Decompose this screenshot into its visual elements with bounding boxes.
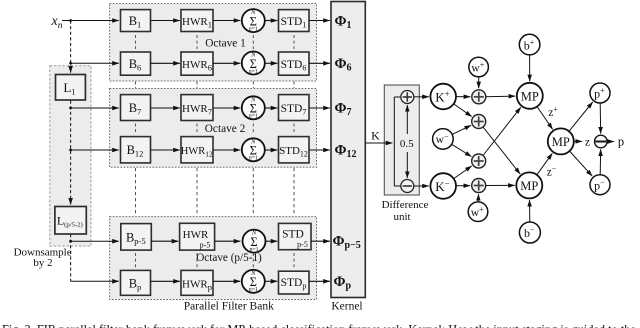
wire diffminus to K- [414,185,429,187]
wire Bp5 to HWRp5 [151,240,178,242]
svg-text:n=1: n=1 [249,287,258,293]
svg-text:n=1: n=1 [249,26,258,32]
inter-row dashes octave1 [136,35,295,49]
wire branch to B6 [71,62,119,64]
summation S6 [242,52,265,75]
node b- [519,222,540,243]
wire MPtop to MPright z+ [537,107,553,130]
inter-octave dashes 1-2 [136,82,295,89]
wire HWRp to sump [213,280,240,282]
svg-text:HWR: HWR [183,229,209,241]
svg-text:Octave 2: Octave 2 [205,123,246,135]
wire STD12 to kernel [309,149,330,151]
wire STD7 to kernel [309,107,330,109]
wire K+ to adder1 [456,96,470,98]
node w+ bottom [468,202,488,222]
wire p+ down to output subtractor [599,103,602,134]
junction B12 branch [69,149,72,152]
node phi1 [335,13,352,31]
wire HWRp5 to sump5 [215,240,241,242]
svg-text:p-5: p-5 [297,240,308,249]
svg-text:xn: xn [51,14,63,31]
wire STDp5 to kernel [311,240,330,242]
summation Sp [242,270,265,293]
wire split to minus [394,185,400,187]
downsampler L1 [56,75,86,101]
wire B12 to HWR12 [151,149,180,151]
wire xn to B1 [62,20,119,22]
junction xn branch [69,19,72,22]
node w- [433,129,454,150]
adder node 1 [472,90,486,104]
svg-text:z: z [585,135,590,149]
label 0.5 [398,136,416,151]
octave 3 container [110,217,317,300]
wire sum1 to STD1 [265,20,278,22]
wire HWR12 to sum12 [213,149,240,151]
wire branch to B7 [71,107,119,109]
wire adder4 to MPbottom [486,184,515,186]
wire B6 to HWR6 [151,62,180,64]
svg-text:Fig. 3. FIR parallel filter b: Fig. 3. FIR parallel filter bank framewo… [2,323,636,328]
rectifier HWRp [181,270,213,295]
wire K kernel to difference unit [366,142,393,144]
junction Bp5 branch [69,240,72,243]
wire MPright to p- [570,151,593,176]
summation S12 [242,138,265,161]
node K- [430,173,456,199]
svg-text:p: p [618,135,624,149]
junction B6 branch [69,62,72,65]
svg-text:STD: STD [282,229,304,241]
svg-text:z+: z+ [548,105,558,119]
svg-text:Kernel: Kernel [331,301,362,313]
svg-text:Octave (p/5-1): Octave (p/5-1) [196,252,262,264]
svg-text:MP: MP [520,179,538,193]
wire K- to adder3 [454,166,472,179]
wire K+ to adder2 [454,104,472,117]
svg-text:unit: unit [393,211,410,223]
wire HWR1 to sum1 [213,20,240,22]
node phi12 [335,143,357,161]
node phi7 [335,101,352,119]
node p- [590,175,610,195]
svg-text:HWR7: HWR7 [182,103,212,117]
kernel container [331,2,365,298]
node w+ top [469,57,489,77]
wire p- up to output subtractor [599,149,602,174]
wire dashed xn down to L1 [70,21,72,73]
svg-text:HWRp: HWRp [182,278,212,292]
filter B1 [121,10,151,32]
wire sum6 to STD6 [265,62,278,64]
rectifier HWRp-5 [180,223,215,250]
node phip-5 [333,234,361,252]
wire subtractor to p output [607,141,614,143]
node p+ [590,83,610,103]
wire w+top to adder1 [478,77,480,88]
filter Bp-5 [121,224,152,251]
wire sump5 to STDp5 [266,240,278,242]
wire diff unit split vertical [393,97,395,186]
wire STD6 to kernel [309,62,330,64]
node xn input label [51,14,63,31]
svg-text:HWR6: HWR6 [182,59,212,73]
wire dashed L2 down [70,234,72,281]
wire sum12 to STD12 [265,149,278,151]
svg-text:z−: z− [547,165,557,179]
wire w- to adder2 [452,125,471,134]
output subtractor node [595,135,608,148]
octave 1 container [110,4,317,82]
rectifier HWR6 [181,52,213,75]
std block STDp-5 [279,223,312,249]
node phi6 [335,56,352,74]
summation Sp-5 [243,230,266,253]
wire STD1 to kernel [309,20,330,22]
filter B7 [121,95,151,121]
std block STDp [279,271,310,294]
rectifier HWR12 [181,137,213,163]
std block STD7 [279,95,310,121]
summation S1 [242,9,265,32]
rectifier HWR7 [181,95,213,121]
svg-text:n=1: n=1 [249,69,258,75]
adder diff plus [401,91,414,104]
label Difference unit [382,199,429,223]
svg-text:Difference: Difference [382,199,429,211]
node MP top [517,83,543,109]
wire adder1 to MPtop [486,95,515,98]
svg-text:0.5: 0.5 [400,138,414,150]
wire branch to B12 [71,149,119,151]
svg-text:HWR1: HWR1 [182,16,212,30]
wire branch to Bp [71,280,119,282]
node phip [334,274,352,292]
downsample container [50,66,91,246]
wire b+ to MPtop [529,55,531,81]
svg-text:MP: MP [521,89,539,103]
svg-text:n=1: n=1 [249,114,258,120]
filter Bp [121,270,151,295]
wire MPright to z [574,140,582,142]
svg-text:Parallel Filter Bank: Parallel Filter Bank [184,301,274,313]
wire dashed L1 down to L2 [70,101,72,205]
wire sump to STDp [265,280,278,282]
wire 0.5 down to minus [406,152,408,178]
svg-text:by 2: by 2 [33,257,52,269]
label Downsample by 2 [14,246,72,269]
adder node 3 [472,154,486,168]
node MP right [548,128,574,154]
node K+ [430,84,456,110]
wire HWR6 to sum6 [213,62,240,64]
std block STD12 [279,137,310,163]
wire B1 to HWR1 [151,20,180,22]
rectifier HWR1 [181,10,213,32]
difference unit container [384,85,419,195]
filter B6 [121,52,151,75]
inter-row dashes octave3 [136,253,295,268]
wire MPright to p+ [569,102,593,131]
downsampler L(p/5-2) [55,207,86,235]
node MP bottom [516,172,542,198]
svg-text:Octave 1: Octave 1 [205,38,245,50]
subtractor diff minus [401,180,414,193]
node b+ [519,34,540,55]
wire K- to adder4 [456,185,470,187]
adder node 4 [472,179,486,193]
svg-text:n=1: n=1 [249,156,258,162]
std block STD1 [279,10,310,32]
wire diffplus to K+ [414,96,429,98]
wire b- to MPbottom [529,200,531,222]
svg-text:MP: MP [552,135,570,149]
wire branch to Bp5 [71,240,119,242]
wire w- to adder3 [452,144,472,156]
wire w+bot to adder4 [477,194,479,202]
std block STD6 [279,52,310,75]
wire MPbottom to MPright z- [537,153,552,175]
filter B12 [121,137,151,163]
wire STDp to kernel [309,280,330,282]
wire adder2 to MPbottom [483,127,520,174]
svg-text:p-5: p-5 [200,241,211,250]
wire B7 to HWR7 [151,107,180,109]
wire Bp to HWRp [151,280,180,282]
octave 2 container [110,89,317,168]
inter-octave dashes 2-3 [136,168,295,216]
wire adder3 to MPtop [483,107,521,155]
summation S7 [242,96,265,119]
junction B7 branch [69,107,72,110]
wire HWR7 to sum7 [213,107,240,109]
inter-row dashes octave2 [136,124,295,135]
adder node 2 [472,115,486,129]
svg-text:K: K [371,129,380,143]
wire split to plus [394,96,400,98]
wire 0.5 up to plus [406,105,408,134]
wire sum7 to STD7 [265,107,278,109]
